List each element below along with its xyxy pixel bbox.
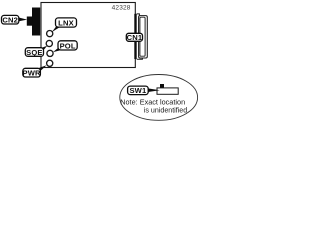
callout label SQE [25, 46, 47, 57]
svg-text:SQE: SQE [26, 48, 43, 57]
connector CN1 mounting bar [134, 14, 136, 59]
svg-text:CN2: CN2 [2, 16, 18, 25]
svg-text:PWR: PWR [23, 68, 42, 77]
svg-text:CN1: CN1 [127, 33, 143, 42]
callout label CN2 [2, 15, 28, 24]
LED 4 (PWR) [47, 60, 53, 66]
svg-text:42328: 42328 [112, 4, 131, 11]
callout label SW1 [128, 86, 160, 95]
svg-text:SW1: SW1 [129, 86, 147, 95]
card outline [41, 3, 135, 68]
callout label CN1 [126, 33, 143, 42]
LED 2 (SQE) [46, 40, 52, 46]
note ellipse [120, 75, 198, 121]
svg-text:Note: Exact location: Note: Exact location [120, 97, 185, 106]
connector CN2 [27, 8, 40, 36]
LED 3 (POL) [47, 50, 53, 56]
svg-text:LNX: LNX [58, 19, 74, 28]
connector CN1 body [137, 14, 148, 59]
svg-text:POL: POL [60, 42, 76, 51]
LED 1 (LNX) [47, 30, 53, 36]
callout label LNX [52, 18, 77, 32]
svg-text:is unidentified.: is unidentified. [144, 106, 189, 114]
callout label PWR [23, 65, 47, 77]
switch SW1 body [157, 84, 178, 94]
callout label POL [53, 41, 77, 52]
